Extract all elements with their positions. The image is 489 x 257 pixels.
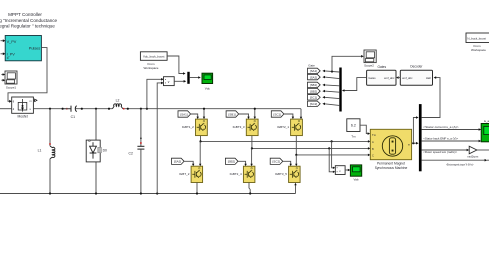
svg-text:Gates: Gates	[378, 65, 387, 69]
svg-text:Pulses: Pulses	[29, 46, 40, 50]
subsystem MPPT Controller (cyan)	[5, 36, 41, 61]
wire demux out 2	[325, 77, 340, 79]
wire phase B (leg2 midpoint to machine B)	[251, 136, 253, 149]
gain rad2rpm	[468, 146, 479, 158]
wire From Workspace to mux	[167, 56, 183, 74]
voltage measurement Vab	[335, 166, 345, 175]
inductor L1 (shunt)	[38, 109, 55, 194]
node C2 branch	[140, 108, 142, 110]
scope Scope2	[364, 50, 376, 68]
wire input stub V_PV	[1, 41, 4, 54]
svg-text:Vdc: Vdc	[205, 86, 211, 90]
svg-text:emf_abc: emf_abc	[402, 76, 413, 80]
svg-text:IGBT1_2: IGBT1_2	[182, 125, 194, 129]
svg-text:[SA2]: [SA2]	[174, 160, 182, 164]
wire mux to Vdc scope	[190, 77, 199, 79]
svg-text:rad2rpm: rad2rpm	[468, 154, 479, 158]
node Vdc+ branch	[146, 108, 148, 110]
node scope2 tap	[331, 70, 333, 72]
wire SC2 to gate	[283, 161, 291, 164]
wire Decoder to Gates	[399, 77, 400, 79]
wire collector leg1	[203, 109, 205, 118]
wire Vdc- measurement tap	[157, 83, 161, 194]
mux (Vdc compare)	[187, 72, 189, 84]
svg-text:A: A	[372, 140, 374, 144]
svg-text:Gates: Gates	[368, 76, 376, 80]
node bottom D0	[95, 192, 97, 194]
svg-text:[SA1]: [SA1]	[310, 69, 317, 73]
wire phase C (leg3 midpoint to machine C)	[295, 136, 297, 155]
transistor IGBT1_2 (top leg A)	[182, 119, 208, 136]
svg-text:C2: C2	[129, 151, 133, 155]
wire back EMF to scope	[422, 140, 479, 142]
wire SC1 to gate	[284, 114, 293, 118]
inductor L2 (series)	[112, 99, 124, 110]
wire Tm to machine	[360, 125, 368, 133]
from tag SC2	[270, 158, 283, 164]
svg-text:Decoder: Decoder	[410, 64, 423, 68]
wire machine m to bus selector	[412, 142, 417, 144]
svg-text:m: m	[30, 100, 32, 103]
wire bottom emitter leg2	[249, 183, 250, 194]
transistor IGBT_2 (bottom leg A)	[179, 166, 203, 182]
transistor IGBT2_1 (top leg C)	[277, 119, 302, 136]
svg-text:emf_abc: emf_abc	[384, 76, 395, 80]
svg-text:[SA2]: [SA2]	[310, 75, 317, 79]
svg-text:[SB2]: [SB2]	[310, 89, 317, 93]
scope is_a (green, clipped)	[481, 119, 489, 142]
svg-text:Tm: Tm	[351, 134, 356, 138]
svg-text:[SC2]: [SC2]	[310, 102, 317, 106]
machine PMSM (Permanent Magnet Synchronous Machine)	[370, 129, 411, 170]
wire Vab measurement to scope	[345, 169, 348, 171]
transistor IGBT2_4 (bottom leg B)	[230, 166, 255, 182]
transistor Mosfet block	[12, 97, 34, 119]
svg-text:<Stator current is_a (A)>: <Stator current is_a (A)>	[423, 125, 459, 129]
svg-text:[SB1]: [SB1]	[310, 83, 317, 87]
svg-text:+ Integral Regulator " techniq: + Integral Regulator " technique	[0, 23, 55, 28]
svg-text:[SB2]: [SB2]	[228, 160, 236, 164]
wire top rail (DC bus +)	[0, 109, 301, 118]
transistor IGBT3_3 (top leg B)	[233, 119, 259, 136]
goto tag SA2	[308, 74, 321, 79]
svg-text:I_PV: I_PV	[7, 52, 16, 56]
wire demux out 4	[325, 91, 340, 92]
wire m branch to bus selector upper input	[413, 118, 416, 144]
scope Scope1	[5, 71, 17, 89]
svg-text:IGBT3_5: IGBT3_5	[275, 172, 287, 176]
from tag SC1	[271, 111, 284, 117]
wire Gates to demux	[344, 78, 366, 91]
wire SB1 to gate	[239, 114, 249, 118]
subsystem Decoder	[400, 64, 432, 85]
wire SA1 to gate	[191, 114, 198, 118]
svg-text:Synchronous Machine: Synchronous Machine	[375, 166, 408, 170]
wire Vdc+ measurement tap	[147, 79, 162, 108]
svg-text:IGBT2_1: IGBT2_1	[277, 125, 289, 129]
wire demux out 3	[325, 84, 340, 87]
svg-text:is_a: is_a	[484, 119, 489, 123]
diode D0 block	[86, 109, 107, 194]
wire demux out 6	[325, 104, 340, 106]
wire leg2 to bottom collector	[251, 148, 253, 164]
svg-text:Mosfet: Mosfet	[18, 115, 28, 119]
capacitor C1 (series)	[64, 106, 77, 120]
node phase B leg	[251, 147, 253, 149]
goto tag SA1	[308, 68, 321, 73]
node L2 right	[127, 108, 129, 110]
svg-text:Workspace: Workspace	[471, 48, 486, 52]
svg-text:IGBT_2: IGBT_2	[179, 172, 190, 176]
wire leg3 to bottom collector	[295, 155, 297, 165]
node m branch	[412, 142, 414, 144]
wire demux out 1	[325, 71, 340, 72]
node phase C leg	[295, 154, 297, 156]
svg-text:B: B	[372, 147, 374, 151]
port arrows into machine A B C	[368, 140, 370, 143]
svg-text:[SC1]: [SC1]	[274, 112, 282, 116]
subsystem Gates	[367, 65, 396, 85]
wire Vab tap B	[329, 148, 333, 171]
scope Vab (green)	[350, 165, 361, 182]
svg-text:Scope2: Scope2	[364, 64, 374, 68]
svg-text:Vab: Vab	[354, 178, 359, 182]
node C1 right	[81, 108, 83, 110]
svg-text:D0: D0	[103, 148, 107, 152]
node L1 top	[49, 108, 51, 110]
svg-text:<Rotor speed wm (rad/s)>: <Rotor speed wm (rad/s)>	[423, 150, 457, 154]
From Workspace N_buck_boost (clipped)	[466, 33, 489, 52]
svg-text:Gate: Gate	[308, 63, 315, 67]
svg-text:<Stator back EMF e_a (V)>: <Stator back EMF e_a (V)>	[423, 137, 458, 141]
svg-text:m: m	[408, 143, 410, 146]
svg-text:C: C	[372, 154, 374, 158]
node D0 branch	[95, 108, 97, 110]
svg-text:Hall: Hall	[426, 76, 431, 80]
svg-text:IGBT3_3: IGBT3_3	[233, 125, 245, 129]
svg-text:Vdc_buck_boost: Vdc_buck_boost	[143, 55, 165, 59]
voltage measurement Vdc	[164, 77, 175, 86]
capacitor C2 (shunt)	[129, 109, 145, 194]
annotation: MPPT Controller using Incremental Conductance + Integral Regulator technique	[0, 12, 58, 28]
wire SB2 to gate	[238, 161, 246, 164]
wire gain out	[477, 149, 489, 151]
wire leg1 to bottom collector	[199, 141, 201, 164]
svg-text:V_PV: V_PV	[7, 40, 17, 44]
node Vab tap A	[331, 140, 333, 142]
node bottom L1	[49, 192, 51, 194]
wire torque output	[422, 159, 485, 161]
node phase A leg	[199, 140, 201, 142]
node C1 left	[62, 108, 64, 110]
svg-text:<Electromagnetic torque Te (N*: <Electromagnetic torque Te (N*m)>	[446, 163, 474, 167]
wire to Scope2	[332, 56, 361, 71]
svg-text:[SB1]: [SB1]	[228, 112, 236, 116]
svg-text:L1: L1	[38, 149, 42, 153]
goto tag SC1	[308, 95, 321, 100]
wire bottom rail (DC bus -)	[0, 193, 296, 195]
wire phase A (leg1 midpoint to machine A)	[200, 136, 202, 142]
svg-text:Scope1: Scope1	[6, 85, 17, 89]
svg-text:Tm: Tm	[372, 133, 377, 137]
wire Vab tap A	[332, 141, 334, 167]
wire stator current to scope	[422, 129, 479, 131]
goto tag SB2	[308, 88, 321, 93]
svg-text:[SC1]: [SC1]	[310, 96, 317, 100]
svg-text:N_buck_boost: N_buck_boost	[467, 36, 486, 40]
wire bottom emitter leg1	[196, 183, 198, 194]
node Vab tap B	[328, 147, 330, 149]
wire bottom emitter leg3 (rail end turns up)	[295, 185, 297, 194]
wire rotor speed to gain	[422, 149, 467, 151]
svg-text:IGBT2_4: IGBT2_4	[230, 172, 242, 176]
bus selector	[419, 104, 422, 171]
constant Tm 6.2	[347, 119, 360, 139]
wire collector leg2	[254, 109, 256, 118]
node L2 left	[108, 108, 110, 110]
demux	[339, 68, 341, 112]
svg-text:[SC2]: [SC2]	[272, 160, 280, 164]
node bottom C2	[140, 192, 142, 194]
wire Vm out to mux	[174, 80, 184, 82]
node bottom Vdc-	[156, 192, 158, 194]
svg-text:[SA1]: [SA1]	[180, 112, 188, 116]
scope Vdc (green)	[202, 73, 213, 90]
goto tag SC2	[308, 101, 321, 106]
svg-text:6.2: 6.2	[351, 124, 356, 128]
svg-text:D: D	[7, 56, 9, 60]
svg-text:MPPT Controller: MPPT Controller	[8, 12, 42, 17]
svg-text:C1: C1	[71, 115, 75, 119]
transistor IGBT3_5 (bottom leg C)	[275, 166, 300, 182]
from tag SB2	[225, 158, 238, 164]
svg-text:L2: L2	[116, 99, 120, 103]
mosfet m output stub	[33, 99, 34, 101]
from tag SB1	[226, 111, 239, 117]
wire Pulses to Mosfet gate	[8, 48, 47, 102]
from tag SA2	[172, 158, 185, 164]
From Workspace Vdc_buck_boost	[140, 52, 167, 70]
goto tag SB1	[308, 82, 321, 87]
wire scope1 stubs	[1, 75, 3, 81]
wire demux out 5	[325, 97, 340, 98]
wire SA2 to gate	[184, 161, 193, 164]
svg-text:Workspace: Workspace	[144, 66, 159, 70]
from tag SA1	[178, 111, 191, 117]
wire bus selector to Decoder (Hall)	[422, 78, 440, 118]
